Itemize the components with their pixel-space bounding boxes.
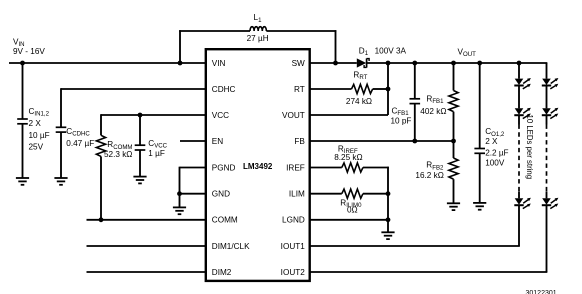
- wire VOUT pin: [310, 114, 388, 116]
- IC U1 LM3492: [206, 49, 310, 281]
- svg-text:10 µF: 10 µF: [29, 131, 50, 140]
- junction CFB1/FB: [412, 139, 417, 144]
- junction RCOMM/COMM: [99, 217, 104, 222]
- node VOUT: [458, 47, 477, 58]
- node figure number: [526, 290, 557, 294]
- svg-text:SW: SW: [292, 59, 305, 68]
- svg-text:CDHC: CDHC: [212, 85, 236, 94]
- svg-text:VOUT: VOUT: [282, 111, 305, 120]
- svg-text:FB: FB: [294, 137, 305, 146]
- svg-text:10 LEDs per string: 10 LEDs per string: [525, 115, 534, 180]
- svg-text:30122301: 30122301: [526, 290, 557, 294]
- junction FB divider: [451, 139, 456, 144]
- svg-text:274 kΩ: 274 kΩ: [346, 97, 372, 106]
- ground (PGND/GND): [173, 207, 186, 214]
- wire IOUT1: [310, 245, 520, 247]
- svg-text:100V 3A: 100V 3A: [375, 46, 407, 55]
- svg-text:DIM2: DIM2: [212, 268, 232, 277]
- wire DIM2: [87, 271, 207, 273]
- svg-text:EN: EN: [212, 137, 223, 146]
- resistor R_RT: [346, 71, 373, 106]
- svg-text:0.47 µF: 0.47 µF: [66, 139, 94, 148]
- wire L1 loop: [179, 30, 336, 63]
- svg-text:LM3492: LM3492: [243, 162, 273, 171]
- wire FB: [310, 140, 454, 142]
- svg-text:DIM1/CLK: DIM1/CLK: [212, 242, 250, 251]
- junction CFB1 top: [412, 61, 417, 66]
- wire IREF: [310, 167, 389, 169]
- node 10 LEDs per string: [525, 115, 534, 180]
- svg-text:25V: 25V: [29, 143, 44, 152]
- svg-text:27 µH: 27 µH: [247, 34, 269, 43]
- capacitor C_FB1: [391, 63, 421, 141]
- wire VCC: [101, 114, 206, 135]
- junction D1 cathode: [386, 61, 391, 115]
- svg-text:402 kΩ: 402 kΩ: [420, 107, 446, 116]
- ground (CCDHC): [54, 178, 67, 185]
- ground (CIN): [16, 178, 29, 185]
- wire DIM1/CLK: [87, 245, 207, 247]
- svg-text:2 X: 2 X: [485, 137, 498, 146]
- svg-text:IOUT2: IOUT2: [281, 268, 306, 277]
- wire COMM: [87, 219, 207, 221]
- resistor R_ILIM0: [340, 189, 363, 214]
- LED string 1 (10 LEDs): [514, 63, 531, 246]
- junction LGND/bus: [386, 217, 391, 222]
- capacitor C_IN1,2: [17, 63, 49, 178]
- svg-text:IREF: IREF: [286, 163, 305, 172]
- svg-text:VCC: VCC: [212, 111, 229, 120]
- junction PGND/GND: [177, 191, 182, 207]
- svg-text:VIN: VIN: [212, 59, 226, 68]
- diode D1 (schottky): [357, 46, 407, 67]
- svg-text:GND: GND: [212, 190, 230, 199]
- wire ILIM bus: [387, 167, 389, 233]
- svg-text:1 µF: 1 µF: [148, 149, 165, 158]
- svg-text:8.25 kΩ: 8.25 kΩ: [334, 153, 362, 162]
- svg-text:COMM: COMM: [212, 216, 238, 225]
- svg-text:52.3 kΩ: 52.3 kΩ: [104, 150, 132, 159]
- junction RFB1 top: [451, 61, 456, 66]
- svg-text:0Ω: 0Ω: [347, 205, 358, 214]
- junction ILIM/bus: [386, 191, 391, 196]
- junction CIN tap: [20, 61, 25, 66]
- svg-text:PGND: PGND: [212, 163, 236, 172]
- resistor R_FB2: [415, 141, 458, 203]
- capacitor C_CDHC: [56, 127, 95, 178]
- junction RT/bus: [386, 87, 391, 92]
- ground (CO): [473, 203, 486, 210]
- ground (RFB2): [447, 203, 460, 210]
- wire ILIM: [310, 193, 388, 195]
- capacitor C_VCC: [135, 115, 168, 177]
- resistor R_IREF: [334, 144, 363, 172]
- svg-text:9V - 16V: 9V - 16V: [13, 47, 45, 56]
- resistor R_FB1: [420, 63, 458, 141]
- wire GND: [180, 193, 207, 195]
- ground (CVCC): [133, 177, 146, 184]
- svg-text:2 X: 2 X: [29, 119, 42, 128]
- junction CO top: [477, 61, 482, 66]
- wire SW: [310, 62, 357, 64]
- resistor R_COMM: [96, 135, 132, 220]
- wire VIN rail: [9, 62, 206, 64]
- wire PGND: [180, 167, 207, 194]
- wire LGND: [310, 219, 388, 221]
- wire RT: [310, 88, 388, 90]
- junction L1 left: [178, 61, 183, 66]
- ground (LGND): [381, 232, 394, 239]
- svg-text:16.2 kΩ: 16.2 kΩ: [415, 171, 443, 180]
- inductor L1: [247, 13, 269, 43]
- svg-text:10 pF: 10 pF: [391, 116, 412, 125]
- junction CVCC tap: [138, 113, 143, 118]
- capacitor C_O1,2: [474, 63, 508, 203]
- wire VOUT rail: [367, 62, 548, 64]
- junction LED string 1 top: [517, 61, 522, 66]
- svg-text:IOUT1: IOUT1: [281, 242, 306, 251]
- node VIN: [13, 37, 45, 56]
- svg-text:2.2 µF: 2.2 µF: [485, 148, 508, 157]
- svg-text:RT: RT: [294, 85, 305, 94]
- wire EN stub: [180, 140, 206, 142]
- svg-text:LGND: LGND: [282, 216, 305, 225]
- junction L1/SW: [333, 61, 338, 66]
- wire CDHC: [61, 88, 206, 127]
- wire IOUT2: [310, 271, 548, 273]
- LED string 2 (10 LEDs): [542, 63, 559, 272]
- svg-text:100V: 100V: [485, 158, 505, 167]
- svg-text:ILIM: ILIM: [289, 190, 305, 199]
